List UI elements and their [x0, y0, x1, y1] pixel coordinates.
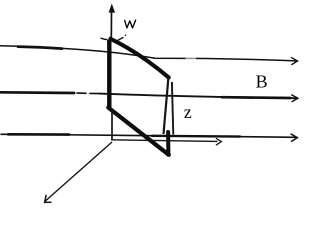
coil top edge (thick diagonal) — [111, 39, 169, 78]
field line B3 (bottom horizontal field line) — [1, 134, 296, 137]
field line B1 (top horizontal field line) — [0, 46, 296, 61]
arrowhead of field line B2 — [291, 95, 298, 102]
faint gap in field line B1 — [186, 55, 197, 62]
svg-text:z: z — [184, 102, 192, 122]
field line B2 (middle horizontal field line) — [0, 92, 296, 98]
z-box left line (coil right edge) — [164, 78, 169, 135]
arrowhead of field line B3 — [291, 134, 298, 142]
z-box right line — [172, 82, 173, 135]
coil left edge (thick) — [107, 40, 111, 109]
rotation arc (dashed) with label w — [100, 38, 107, 40]
arrowhead of horizontal projection arrow — [216, 138, 222, 145]
vertical rotation axis — [110, 12, 112, 40]
arrowhead of vertical axis — [109, 4, 115, 12]
svg-text:B: B — [256, 72, 268, 92]
coil bottom-right corner stroke (thick) — [166, 132, 170, 155]
diagonal depth axis (to lower left) — [45, 142, 112, 202]
horizontal projection line with arrow — [111, 140, 218, 142]
label w (angular velocity) — [125, 20, 136, 28]
arrowhead of depth axis — [45, 195, 52, 203]
coil bottom edge (thick diagonal) — [108, 108, 169, 155]
lower-left thin vertical (projection edge) — [111, 109, 113, 141]
arrowhead of field line B1 — [291, 57, 298, 65]
